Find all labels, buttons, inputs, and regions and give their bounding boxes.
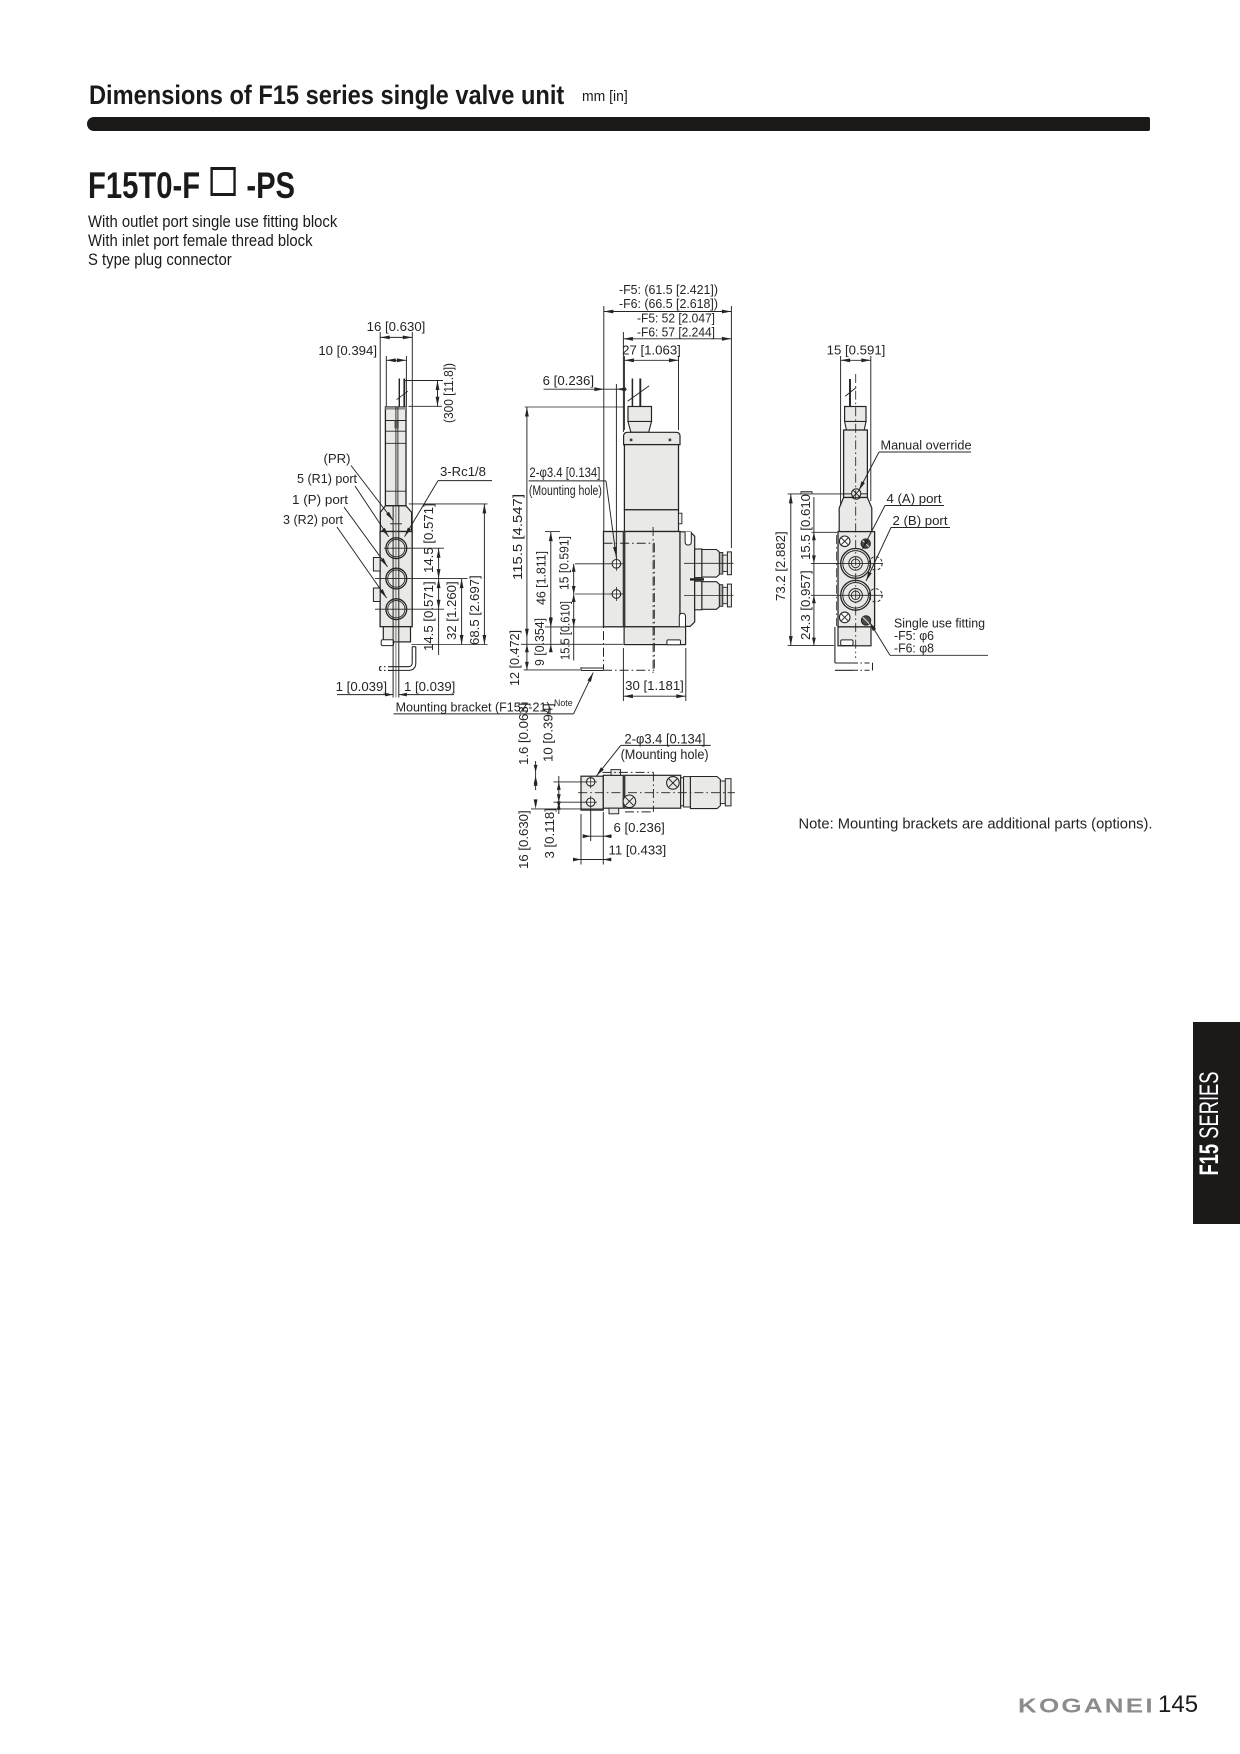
svg-text:5 (R1) port: 5 (R1) port xyxy=(297,471,357,486)
svg-text:-F5: 52 [2.047]: -F5: 52 [2.047] xyxy=(637,311,715,326)
dim 10 [0.394] hole pitch bottom view xyxy=(541,703,587,814)
model heading F15T0-F []-PS xyxy=(88,165,295,207)
phantom wide-block outline, bottom view xyxy=(602,772,653,812)
dim 15 [0.591] right view xyxy=(827,343,886,507)
front view: solenoid + valve body xyxy=(604,379,686,645)
port 1 (P) circle xyxy=(386,568,407,589)
port centre lines, right view xyxy=(811,562,883,564)
dim 16 [0.630] bottom view xyxy=(516,776,603,869)
svg-text:73.2 [2.882]: 73.2 [2.882] xyxy=(773,531,788,601)
hidden fitting dashed circles xyxy=(869,557,882,570)
svg-text:15 [0.591]: 15 [0.591] xyxy=(557,536,572,590)
svg-text:2 (B) port: 2 (B) port xyxy=(893,513,948,528)
dim (300 [11.8]) lead wire xyxy=(405,363,456,423)
right view centreline xyxy=(855,374,857,658)
dim 6 [0.236] bottom view xyxy=(583,809,665,865)
dim 46 [1.811] xyxy=(534,532,561,627)
KOGANEI logo xyxy=(1018,1694,1155,1718)
port centre lines + dim 14.5 [0.571] x2 xyxy=(375,503,468,655)
bracket phantom + foot, right view xyxy=(835,535,873,670)
svg-text:(300 [11.8]): (300 [11.8]) xyxy=(441,363,456,423)
svg-text:15 [0.591]: 15 [0.591] xyxy=(827,343,886,358)
svg-text:16 [0.630]: 16 [0.630] xyxy=(367,319,426,334)
port 2 (B) circles, right view xyxy=(841,580,871,610)
svg-text:3-Rc1/8: 3-Rc1/8 xyxy=(440,464,486,479)
svg-text:-F6: 57 [2.244]: -F6: 57 [2.244] xyxy=(637,325,715,340)
svg-text:6 [0.236]: 6 [0.236] xyxy=(614,820,665,835)
bracket holes, bottom view xyxy=(585,776,597,809)
svg-text:-F6: φ8: -F6: φ8 xyxy=(894,641,934,656)
label 5 (R1) port xyxy=(297,471,389,537)
svg-text:115.5 [4.547]: 115.5 [4.547] xyxy=(510,494,525,580)
svg-text:10 [0.394]: 10 [0.394] xyxy=(541,703,556,762)
dim 9 [0.354] xyxy=(532,617,553,666)
dim 12 [0.472] xyxy=(507,630,623,686)
dim 1.6 [0.063] xyxy=(516,703,602,790)
svg-text:6 [0.236]: 6 [0.236] xyxy=(543,373,594,388)
dim 30 [1.181] xyxy=(623,648,685,701)
svg-text:(Mounting hole): (Mounting hole) xyxy=(621,746,709,762)
label Single use fitting xyxy=(870,616,989,656)
svg-text:68.5 [2.697]: 68.5 [2.697] xyxy=(467,575,482,645)
label 3 (R2) port xyxy=(283,512,387,598)
bracket foot, front view xyxy=(581,667,603,670)
F15 SERIES side tab xyxy=(1193,1022,1240,1224)
fitting manifold block, front view xyxy=(680,532,695,627)
dim 27 [1.063] xyxy=(622,343,681,431)
svg-text:46 [1.811]: 46 [1.811] xyxy=(534,551,549,605)
dim -F5:52 / -F6:57 xyxy=(623,311,731,433)
push-in fitting B port, front view xyxy=(684,581,734,610)
svg-text:11 [0.433]: 11 [0.433] xyxy=(609,843,667,858)
label (PR) xyxy=(324,451,403,524)
svg-text:(PR): (PR) xyxy=(324,451,351,466)
valve centreline, front view xyxy=(652,527,654,673)
svg-text:1 (P) port: 1 (P) port xyxy=(292,492,348,507)
label Mounting bracket (F15Z-21) xyxy=(394,673,594,715)
bottom view: bracket plate xyxy=(581,776,603,810)
svg-text:2-φ3.4 [0.134]: 2-φ3.4 [0.134] xyxy=(529,465,600,480)
dim 15.5 [0.610] xyxy=(545,594,603,660)
dim 32 [1.260] xyxy=(444,579,464,645)
svg-text:12 [0.472]: 12 [0.472] xyxy=(507,630,522,686)
dim 11 [0.433] bottom view xyxy=(573,814,666,865)
bracket foot (left view, L-bend) xyxy=(380,647,416,671)
label 1 (P) port xyxy=(292,492,388,567)
dim 15 [0.591] hole pitch xyxy=(557,536,611,661)
mounting holes, front view xyxy=(609,557,623,601)
svg-text:16 [0.630]: 16 [0.630] xyxy=(516,810,531,869)
svg-text:32 [1.260]: 32 [1.260] xyxy=(444,581,459,640)
title underline bar xyxy=(87,117,1150,131)
svg-text:1 [0.039]: 1 [0.039] xyxy=(336,679,387,694)
svg-text:-F6: (66.5 [2.618]): -F6: (66.5 [2.618]) xyxy=(619,296,718,311)
screws plan view xyxy=(623,777,679,808)
dim 115.5 [4.547] xyxy=(510,407,624,638)
svg-text:27 [1.063]: 27 [1.063] xyxy=(622,343,681,358)
svg-text:3 [0.118]: 3 [0.118] xyxy=(542,808,557,858)
svg-text:(Mounting hole): (Mounting hole) xyxy=(529,483,602,498)
label 3-Rc1/8 xyxy=(405,464,492,537)
screws on port block, right view xyxy=(839,536,870,625)
svg-text:-F5: (61.5 [2.421]): -F5: (61.5 [2.421]) xyxy=(619,282,718,297)
dim 68.5 [2.697] xyxy=(409,504,488,645)
page title xyxy=(89,80,564,111)
svg-text:14.5 [0.571]: 14.5 [0.571] xyxy=(421,503,436,573)
svg-text:Note: Note xyxy=(554,698,573,708)
dim 3 [0.118] bottom view xyxy=(542,801,561,858)
svg-text:24.3 [0.957]: 24.3 [0.957] xyxy=(798,570,813,640)
svg-text:2-φ3.4 [0.134]: 2-φ3.4 [0.134] xyxy=(625,731,706,747)
dim 10 [0.394] xyxy=(318,343,406,407)
plug connector pins (left view) xyxy=(397,379,408,408)
svg-text:1.6 [0.063]: 1.6 [0.063] xyxy=(516,703,531,765)
label 2-phi3.4 (bottom view) xyxy=(597,731,711,776)
dim -F5/-F6 overall width xyxy=(604,282,732,548)
page number xyxy=(1158,1691,1198,1719)
dim 16 [0.630] xyxy=(367,319,426,531)
label 2-phi3.4 mounting hole, front view xyxy=(529,465,617,557)
svg-text:1 [0.039]: 1 [0.039] xyxy=(404,679,455,694)
svg-text:15.5 [0.610]: 15.5 [0.610] xyxy=(558,601,573,660)
manual override button xyxy=(852,489,862,499)
bracket phantom outline, front view xyxy=(603,532,654,671)
port 3 (R2) circle xyxy=(386,599,407,620)
svg-text:10 [0.394]: 10 [0.394] xyxy=(318,343,377,358)
svg-text:Note: Mounting brackets are ad: Note: Mounting brackets are additional p… xyxy=(799,816,1153,833)
dim 1 [0.039] both sides of bracket plate xyxy=(336,679,456,696)
dim 6 [0.236] solenoid offset xyxy=(543,373,627,560)
push-in fitting A port, front view xyxy=(684,549,734,578)
label 4 (A) port xyxy=(863,491,945,549)
right side view: valve xyxy=(838,379,875,646)
label Manual override xyxy=(859,438,972,491)
port 5 (R1) circle xyxy=(386,538,407,559)
lead wire / bracket plate edge (left view) xyxy=(393,407,399,698)
svg-text:15.5 [0.610]: 15.5 [0.610] xyxy=(798,490,813,560)
svg-text:30 [1.181]: 30 [1.181] xyxy=(625,678,684,693)
svg-text:14.5 [0.571]: 14.5 [0.571] xyxy=(421,581,436,651)
label 2 (B) port xyxy=(866,513,950,581)
centreline, bottom view xyxy=(578,792,735,794)
port 4 (A) circles, right view xyxy=(841,549,871,579)
dim 73.2 [2.882] xyxy=(773,494,844,646)
left side view: valve body xyxy=(373,407,412,646)
svg-text:Manual override: Manual override xyxy=(881,438,972,453)
svg-text:3 (R2) port: 3 (R2) port xyxy=(283,512,343,527)
valve body plan, bottom view xyxy=(603,770,731,814)
svg-text:4 (A) port: 4 (A) port xyxy=(887,491,942,506)
dims 15.5 [0.610] / 24.3 [0.957] right view xyxy=(798,490,837,645)
svg-text:9 [0.354]: 9 [0.354] xyxy=(532,618,547,666)
description lines xyxy=(88,213,337,270)
